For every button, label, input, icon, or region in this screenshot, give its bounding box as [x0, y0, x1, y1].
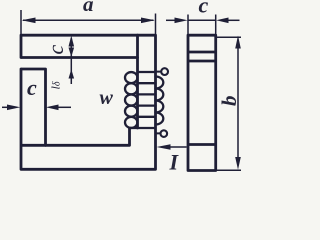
svg-text:I: I — [169, 150, 180, 175]
svg-text:c: c — [199, 0, 209, 18]
svg-text:b: b — [217, 96, 241, 107]
svg-text:a: a — [83, 0, 94, 16]
svg-text:w: w — [100, 87, 114, 109]
svg-text:lδ: lδ — [49, 81, 63, 89]
svg-text:c: c — [27, 75, 37, 100]
svg-text:c: c — [43, 45, 68, 55]
